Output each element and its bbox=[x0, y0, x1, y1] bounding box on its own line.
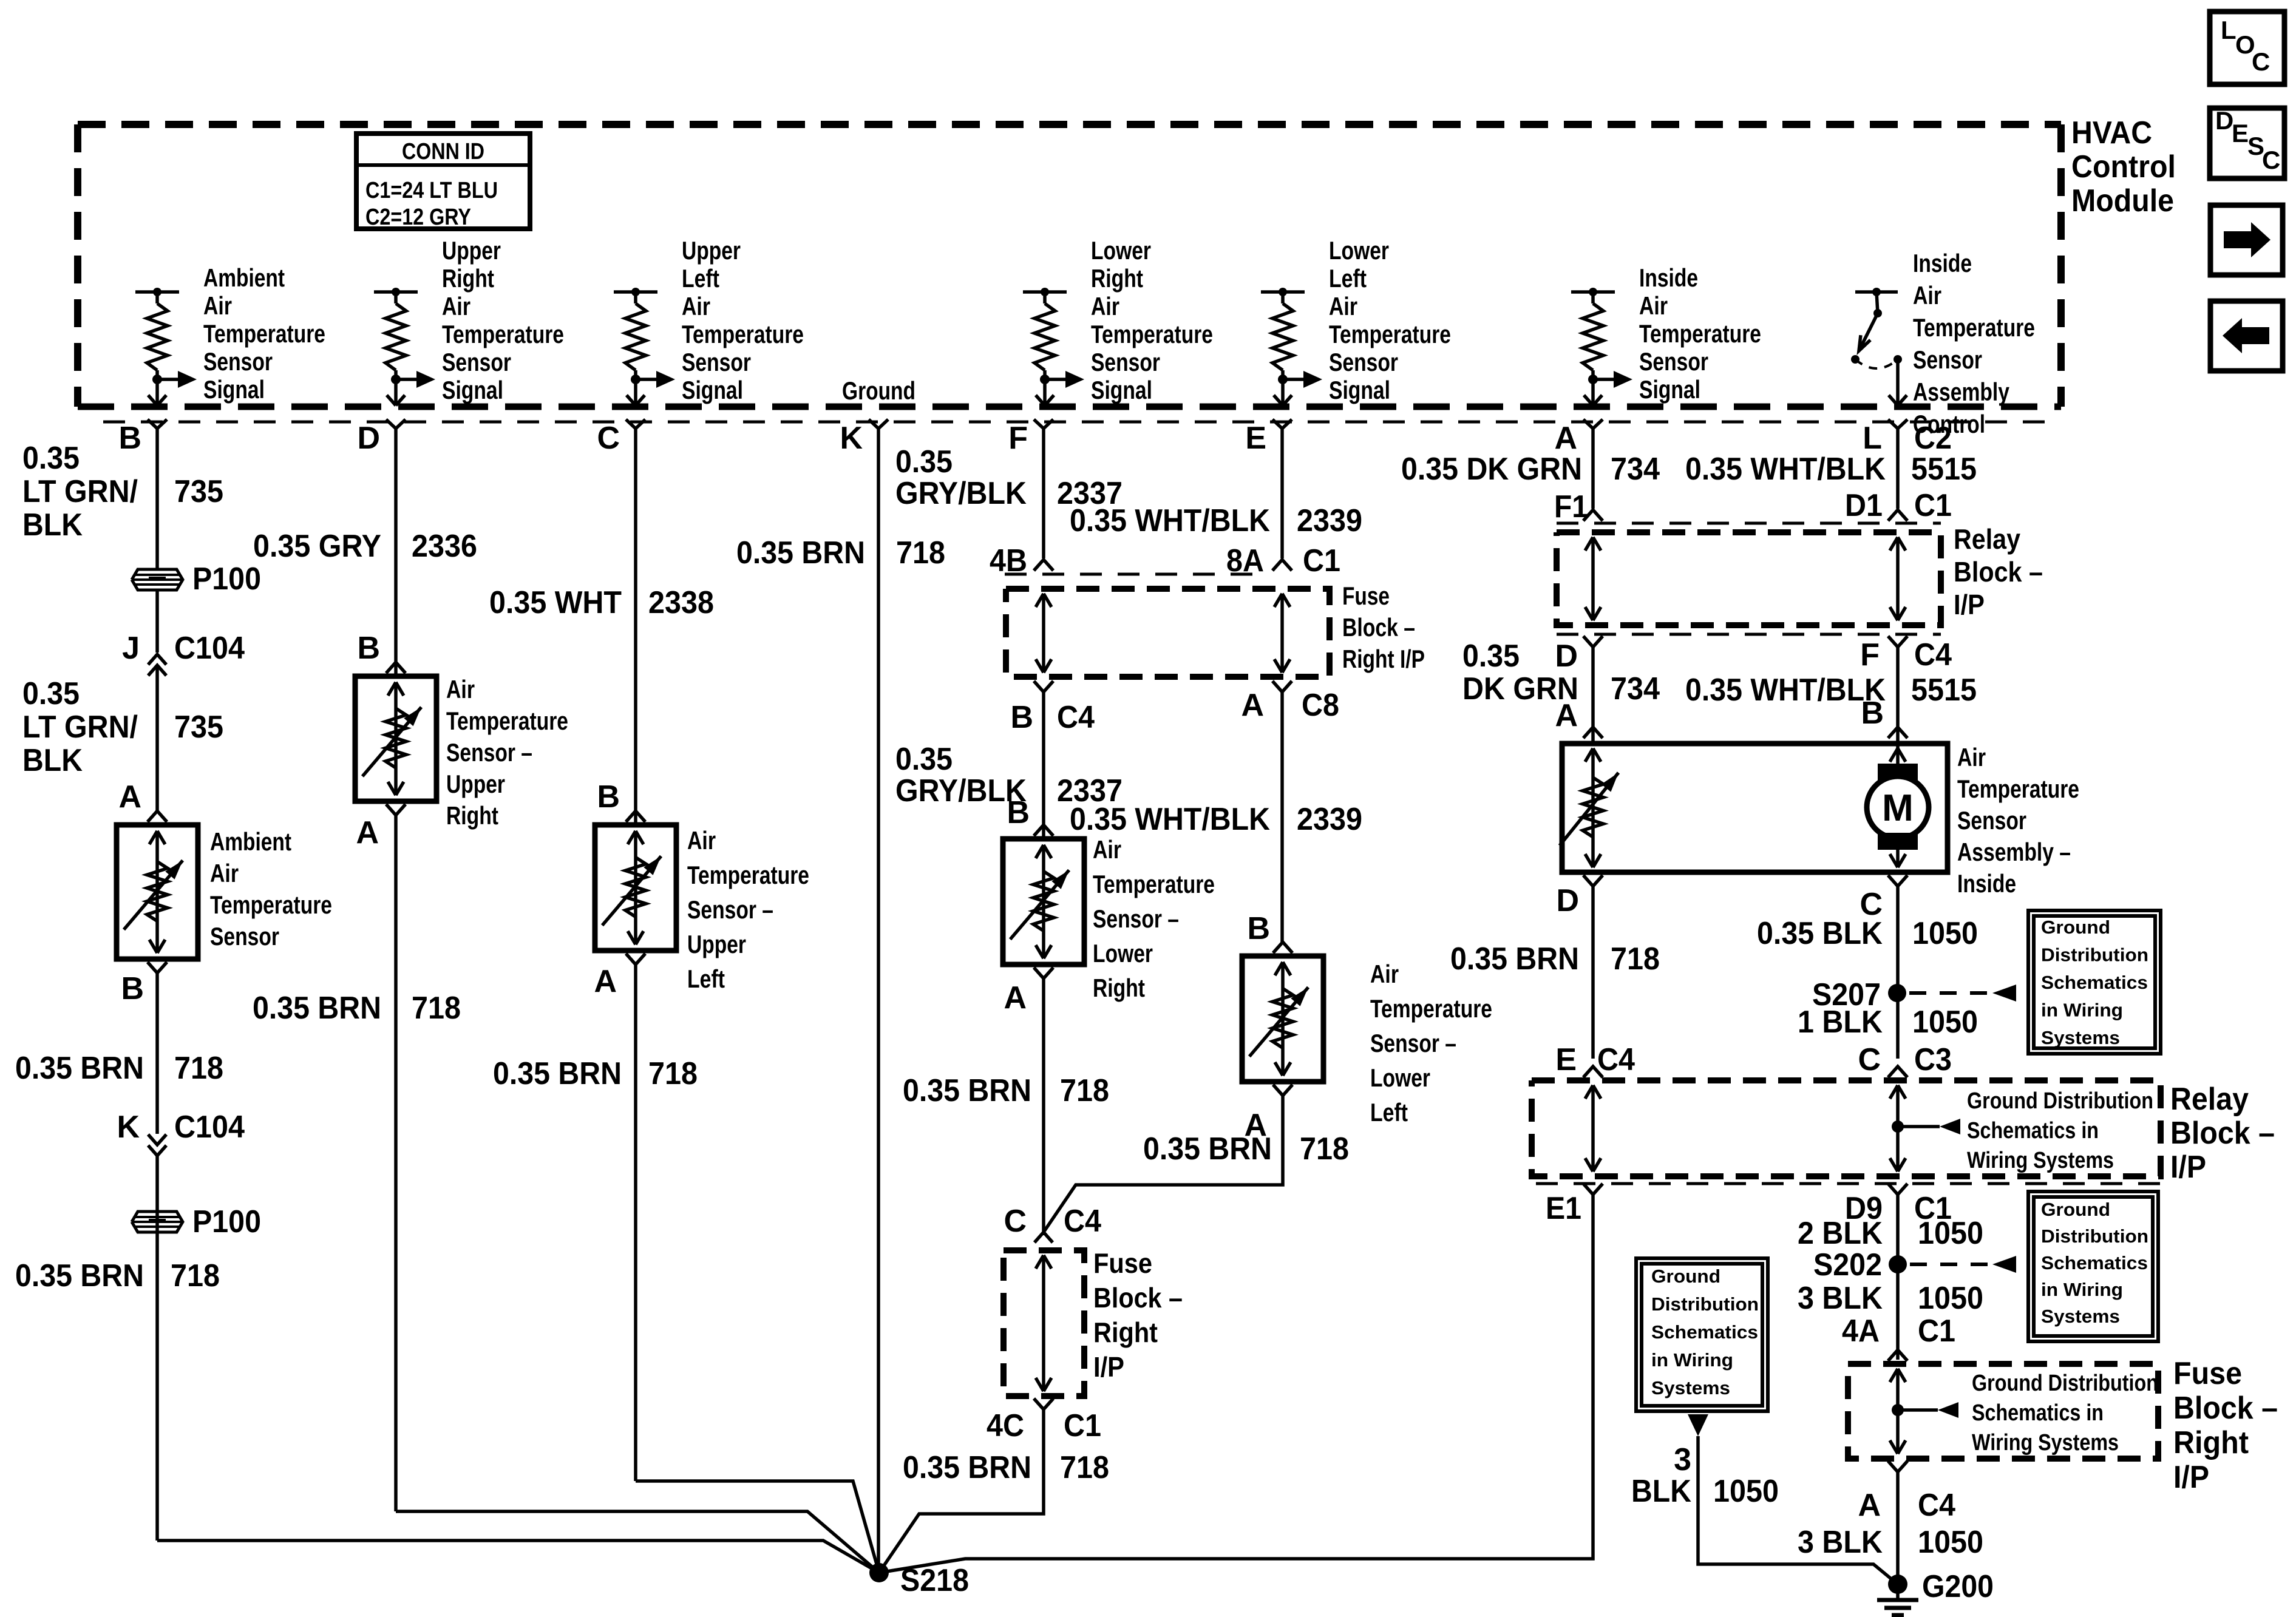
svg-text:0.35 WHT/BLK: 0.35 WHT/BLK bbox=[1070, 802, 1270, 837]
svg-text:Sensor: Sensor bbox=[203, 347, 273, 376]
pin A of lower left sensor bbox=[1244, 1085, 1292, 1143]
svg-text:B: B bbox=[1247, 911, 1270, 946]
svg-text:3 BLK: 3 BLK bbox=[1798, 1525, 1883, 1560]
svg-text:B: B bbox=[1007, 795, 1030, 830]
fuse block 1 internal wire F bbox=[1036, 594, 1051, 673]
svg-text:Temperature: Temperature bbox=[1639, 319, 1761, 348]
label: 0.35 LT GRN/BLK 735 (lower) bbox=[22, 676, 223, 778]
pin letter D bbox=[357, 421, 380, 456]
svg-text:Air: Air bbox=[1370, 960, 1399, 988]
svg-text:B: B bbox=[357, 631, 380, 666]
inline connector J C104 bbox=[148, 654, 166, 686]
label: Air Temperature Sensor - Upper Right bbox=[446, 675, 568, 830]
svg-text:Upper: Upper bbox=[442, 236, 501, 265]
relay block 1 thin dashed line top bbox=[1557, 522, 1941, 525]
svg-text:0.35: 0.35 bbox=[895, 742, 953, 777]
label: 0.35 GRY/BLK 2337 (upper) bbox=[895, 444, 1123, 511]
svg-text:2 BLK: 2 BLK bbox=[1798, 1216, 1883, 1251]
label: 0.35 BRN 718 (F col bottom) bbox=[903, 1450, 1109, 1485]
svg-text:0.35 GRY: 0.35 GRY bbox=[253, 529, 381, 564]
svg-text:1 BLK: 1 BLK bbox=[1798, 1005, 1883, 1040]
wire K column to S218 bbox=[877, 429, 880, 1573]
svg-text:0.35 BRN: 0.35 BRN bbox=[15, 1258, 144, 1293]
svg-text:1050: 1050 bbox=[1918, 1525, 1983, 1560]
wire E1 bottom run to S218 bbox=[879, 1195, 1593, 1573]
fuse block - right I/P dashed box (middle) bbox=[1004, 1250, 1084, 1396]
fuse block 1 internal wire E bbox=[1274, 594, 1290, 673]
svg-text:Temperature: Temperature bbox=[446, 707, 568, 735]
svg-text:Temperature: Temperature bbox=[687, 861, 809, 889]
label: P100 bbox=[192, 561, 261, 597]
svg-text:Temperature: Temperature bbox=[1091, 320, 1213, 348]
wire L below relay 2 bbox=[1896, 1195, 1900, 1360]
svg-text:Relay: Relay bbox=[1954, 523, 2020, 555]
pin D9 C1 below relay block 2 bbox=[1845, 1184, 1952, 1226]
svg-text:1050: 1050 bbox=[1912, 1005, 1978, 1040]
svg-text:Ground: Ground bbox=[1651, 1266, 1720, 1287]
pin A C4 below fuse block 3 bbox=[1858, 1461, 1955, 1523]
svg-text:Signal: Signal bbox=[1329, 376, 1390, 404]
wire B column upper bbox=[155, 429, 159, 569]
relay block 2 thin dashed line bottom bbox=[1536, 1182, 2161, 1185]
svg-text:Wiring Systems: Wiring Systems bbox=[1972, 1430, 2119, 1456]
svg-text:G200: G200 bbox=[1922, 1569, 1994, 1604]
connector P100 (upper) bbox=[132, 569, 183, 590]
wire 3 BLK to G200 bbox=[1698, 1436, 1898, 1584]
svg-text:Block –: Block – bbox=[2173, 1391, 2278, 1426]
fuse block 1 connector thin dashed line bbox=[1005, 573, 1266, 576]
svg-text:Schematics in: Schematics in bbox=[1967, 1118, 2099, 1144]
svg-text:P100: P100 bbox=[192, 561, 261, 597]
svg-text:1050: 1050 bbox=[1918, 1216, 1983, 1251]
connector id C2 bbox=[1914, 421, 1952, 456]
svg-text:3 BLK: 3 BLK bbox=[1798, 1281, 1883, 1316]
pin E1 below relay block 2 bbox=[1546, 1184, 1603, 1226]
svg-text:Systems: Systems bbox=[2041, 1306, 2120, 1327]
ambient air temperature sensor box bbox=[117, 825, 198, 959]
svg-text:E1: E1 bbox=[1546, 1191, 1581, 1226]
svg-text:Ground Distribution: Ground Distribution bbox=[1972, 1371, 2158, 1396]
label: D1 C1 bbox=[1845, 488, 1952, 523]
label: 3 BLK 1050 (bottom) bbox=[1798, 1525, 1983, 1560]
pin letter F bbox=[1008, 421, 1028, 456]
module internal resistor - upper-right air temperature sensor signal bbox=[374, 288, 435, 405]
label: 0.35 BRN 718 (C col) bbox=[493, 1056, 698, 1091]
svg-text:Sensor –: Sensor – bbox=[687, 895, 773, 924]
svg-text:2338: 2338 bbox=[648, 585, 714, 620]
svg-text:735: 735 bbox=[174, 710, 223, 745]
label: 4A C1 bbox=[1842, 1314, 1955, 1349]
connector P100 (lower) bbox=[132, 1212, 183, 1232]
pin D below relay block 1 bbox=[1462, 636, 1603, 674]
svg-text:A: A bbox=[1241, 688, 1264, 723]
svg-text:C104: C104 bbox=[174, 1110, 245, 1145]
module pin F connector chevron bbox=[1034, 419, 1053, 429]
svg-text:Systems: Systems bbox=[2041, 1027, 2120, 1048]
svg-text:Left: Left bbox=[682, 264, 719, 293]
svg-text:D: D bbox=[357, 421, 380, 456]
relay block 2 internal wire with junction bbox=[1890, 1085, 1960, 1171]
label: Lower Right Air Temperature Sensor Signal bbox=[1091, 236, 1213, 404]
svg-text:Air: Air bbox=[1639, 291, 1668, 320]
pin 8A chevron bbox=[1272, 560, 1292, 571]
svg-text:B: B bbox=[1861, 696, 1884, 731]
pin letter K bbox=[840, 421, 863, 456]
svg-text:0.35: 0.35 bbox=[22, 676, 80, 711]
pin A of upper left sensor bbox=[594, 954, 645, 999]
label: Inside Air Temperature Sensor Assembly Control bbox=[1913, 249, 2035, 438]
relay block - I/P dashed box (lower) bbox=[1532, 1080, 2161, 1176]
pin E C4 above relay block 2 bbox=[1555, 1042, 1635, 1077]
module pin B connector chevron bbox=[148, 419, 167, 429]
label: 1 BLK 1050 bbox=[1798, 1005, 1978, 1040]
svg-text:Temperature: Temperature bbox=[210, 890, 332, 919]
svg-text:D1: D1 bbox=[1845, 488, 1883, 523]
fuse block - right I/P dashed box (upper) bbox=[1006, 589, 1330, 677]
svg-text:734: 734 bbox=[1611, 452, 1660, 487]
svg-text:Block –: Block – bbox=[1954, 556, 2043, 588]
svg-text:Schematics: Schematics bbox=[2041, 972, 2148, 993]
module connector thin dashed line (connector row) bbox=[103, 421, 2059, 424]
fuse block 3 internal wire with junction bbox=[1890, 1369, 1958, 1454]
svg-text:Left: Left bbox=[1329, 264, 1367, 293]
pin D1 chevron bbox=[1888, 510, 1907, 521]
pin C C3 above relay block 2 bbox=[1858, 1042, 1952, 1077]
svg-text:BLK: BLK bbox=[1631, 1474, 1691, 1509]
svg-text:Ground: Ground bbox=[2041, 1199, 2110, 1220]
svg-text:C2=12 GRY: C2=12 GRY bbox=[365, 205, 471, 230]
svg-text:2339: 2339 bbox=[1297, 503, 1362, 538]
svg-text:0.35: 0.35 bbox=[895, 444, 953, 480]
svg-text:Schematics: Schematics bbox=[2041, 1252, 2148, 1273]
svg-text:A: A bbox=[1858, 1488, 1881, 1523]
splice S202 bbox=[1813, 1247, 1907, 1283]
label: Lower Left Air Temperature Sensor Signal bbox=[1329, 236, 1451, 404]
relay block - I/P dashed box (upper) bbox=[1557, 532, 1941, 625]
svg-text:F: F bbox=[1008, 421, 1028, 456]
svg-text:I/P: I/P bbox=[1093, 1351, 1124, 1383]
svg-text:Inside: Inside bbox=[1639, 263, 1698, 292]
label: 0.35 BRN 718 (A col) bbox=[1450, 941, 1660, 977]
pin B of lower right sensor bbox=[1007, 795, 1053, 836]
wire to P100 lower bbox=[155, 1156, 159, 1541]
module internal resistor - ambient air temperature sensor signal bbox=[135, 288, 197, 405]
module internal resistor - upper-left air temperature sensor signal bbox=[614, 288, 675, 405]
label: 0.35 LT GRN/BLK 735 (upper) bbox=[22, 441, 223, 543]
svg-text:Ambient: Ambient bbox=[203, 263, 285, 292]
svg-text:BLK: BLK bbox=[22, 743, 83, 778]
label: 0.35 WHT/BLK 2339 (lower) bbox=[1070, 802, 1362, 837]
module pin C connector chevron bbox=[626, 419, 645, 429]
svg-text:Ground Distribution: Ground Distribution bbox=[1967, 1088, 2153, 1114]
fuse block 2 internal wire bbox=[1036, 1255, 1051, 1391]
label: 0.35 GRY/BLK 2337 (lower) bbox=[895, 742, 1123, 808]
svg-text:0.35 BLK: 0.35 BLK bbox=[1757, 916, 1883, 951]
svg-text:M: M bbox=[1882, 787, 1914, 829]
air temperature sensor - upper right box bbox=[355, 676, 436, 801]
svg-text:Right: Right bbox=[2173, 1425, 2249, 1460]
wire C col below assembly bbox=[1896, 886, 1900, 1059]
svg-text:Assembly: Assembly bbox=[1913, 378, 2010, 406]
ground distribution schematics box (right lower) bbox=[2028, 1192, 2158, 1341]
svg-text:C1=24 LT BLU: C1=24 LT BLU bbox=[365, 178, 498, 203]
svg-text:Ground: Ground bbox=[842, 376, 915, 405]
wire E to F join bbox=[1044, 1096, 1283, 1232]
pin B of upper right sensor bbox=[357, 631, 406, 673]
svg-text:CONN ID: CONN ID bbox=[402, 139, 484, 164]
svg-text:Temperature: Temperature bbox=[682, 320, 804, 348]
label: 4B bbox=[990, 543, 1027, 578]
svg-text:Right: Right bbox=[446, 801, 498, 830]
svg-text:718: 718 bbox=[1611, 941, 1660, 977]
label: Relay Block - I/P (upper) bbox=[1954, 523, 2043, 620]
svg-text:Air: Air bbox=[210, 859, 239, 887]
svg-text:Block –: Block – bbox=[1342, 613, 1415, 642]
wire L to assembly box bbox=[1896, 647, 1900, 744]
label: 0.35 WHT/BLK 2339 (upper) bbox=[1070, 503, 1362, 538]
svg-text:S202: S202 bbox=[1813, 1247, 1882, 1283]
svg-text:C4: C4 bbox=[1914, 637, 1952, 673]
svg-text:718: 718 bbox=[1060, 1450, 1109, 1485]
svg-text:K: K bbox=[840, 421, 863, 456]
label: 0.35 BRN 718 (B col lower) bbox=[15, 1258, 220, 1293]
svg-text:Sensor: Sensor bbox=[1957, 806, 2026, 835]
svg-text:Air: Air bbox=[1329, 292, 1357, 320]
wire below upper left sensor bbox=[634, 964, 637, 1481]
svg-text:0.35 BRN: 0.35 BRN bbox=[493, 1056, 622, 1091]
wire below ambient sensor bbox=[155, 973, 159, 1134]
svg-text:Sensor: Sensor bbox=[682, 348, 751, 376]
svg-text:Signal: Signal bbox=[203, 375, 265, 404]
wire A column upper bbox=[1591, 429, 1595, 509]
svg-text:in Wiring: in Wiring bbox=[2041, 1279, 2123, 1300]
svg-text:Air: Air bbox=[1091, 292, 1119, 320]
svg-text:Fuse: Fuse bbox=[1093, 1247, 1152, 1279]
svg-text:Relay: Relay bbox=[2170, 1082, 2249, 1117]
label: Air Temperature Sensor - Upper Left bbox=[687, 826, 809, 993]
svg-text:Distribution: Distribution bbox=[1651, 1293, 1759, 1315]
svg-text:C: C bbox=[597, 421, 620, 456]
ground distribution schematics box (right upper) bbox=[2028, 910, 2161, 1054]
pin letter B bbox=[118, 421, 141, 456]
svg-text:0.35 WHT/BLK: 0.35 WHT/BLK bbox=[1070, 503, 1270, 538]
motor M inside assembly box bbox=[1867, 744, 1929, 867]
pin 4B chevron bbox=[1034, 560, 1053, 571]
svg-text:Temperature: Temperature bbox=[1093, 870, 1215, 898]
label: 0.35 GRY 2336 bbox=[253, 529, 477, 564]
label: 0.35 BRN 718 (K col) bbox=[736, 535, 945, 571]
svg-text:Temperature: Temperature bbox=[1957, 775, 2079, 803]
wire D col below assembly bbox=[1591, 886, 1595, 1059]
svg-text:Distribution: Distribution bbox=[2041, 944, 2148, 966]
label: Relay Block - I/P (lower) bbox=[2170, 1082, 2275, 1185]
svg-text:1050: 1050 bbox=[1713, 1474, 1779, 1509]
module pin D connector chevron bbox=[386, 419, 406, 429]
svg-text:718: 718 bbox=[412, 991, 461, 1026]
svg-text:Air: Air bbox=[682, 292, 710, 320]
svg-text:J: J bbox=[122, 631, 140, 666]
label: P100 (lower) bbox=[192, 1204, 261, 1239]
svg-text:L: L bbox=[1863, 421, 1882, 456]
pin B of lower left sensor bbox=[1247, 911, 1292, 953]
svg-text:C4: C4 bbox=[1597, 1042, 1635, 1077]
label: Ambient Air Temperature Sensor bbox=[210, 827, 332, 951]
pin B of ambient sensor bbox=[121, 962, 167, 1006]
svg-text:P100: P100 bbox=[192, 1204, 261, 1239]
svg-text:BLK: BLK bbox=[22, 507, 83, 543]
svg-text:Air: Air bbox=[203, 291, 232, 320]
label: 2 BLK 1050 bbox=[1798, 1216, 1983, 1251]
svg-text:Temperature: Temperature bbox=[442, 320, 564, 348]
wire L to G200 bbox=[1896, 1472, 1900, 1584]
wire F mid bbox=[1042, 692, 1045, 839]
svg-text:B: B bbox=[118, 421, 141, 456]
module pin L connector chevron bbox=[1888, 419, 1907, 429]
svg-text:Air: Air bbox=[687, 826, 716, 855]
label: Ambient Air Temperature Sensor Signal bbox=[203, 263, 325, 404]
svg-text:Air: Air bbox=[1957, 743, 1986, 771]
S202 dashed reference line bbox=[1910, 1256, 2016, 1273]
svg-text:Schematics in: Schematics in bbox=[1972, 1400, 2104, 1426]
svg-text:Distribution: Distribution bbox=[2041, 1225, 2148, 1247]
svg-text:C: C bbox=[2252, 47, 2270, 76]
module internal resistor - lower-left air temperature sensor signal bbox=[1261, 288, 1322, 405]
splice S207 bbox=[1812, 977, 1906, 1012]
svg-text:Signal: Signal bbox=[442, 376, 503, 404]
label: Inside Air Temperature Sensor Signal bbox=[1639, 263, 1761, 404]
svg-text:Sensor –: Sensor – bbox=[1093, 904, 1179, 933]
wire below upper right sensor bbox=[394, 815, 398, 1511]
label: 0.35 WHT/BLK 5515 (lower) bbox=[1685, 673, 1977, 708]
wire F column upper bbox=[1042, 429, 1045, 558]
svg-text:I/P: I/P bbox=[1954, 589, 1985, 620]
module internal resistor - inside air temperature sensor signal bbox=[1571, 288, 1632, 405]
svg-text:I/P: I/P bbox=[2170, 1150, 2206, 1185]
svg-text:Signal: Signal bbox=[1639, 375, 1700, 404]
svg-text:C4: C4 bbox=[1064, 1204, 1101, 1239]
wire C bottom run to S218 bbox=[636, 1481, 879, 1573]
pin F C4 below relay block 1 bbox=[1860, 636, 1952, 673]
svg-text:0.35 BRN: 0.35 BRN bbox=[15, 1051, 144, 1086]
svg-text:A: A bbox=[356, 815, 379, 850]
svg-text:A: A bbox=[1004, 980, 1027, 1015]
svg-text:Temperature: Temperature bbox=[203, 319, 325, 348]
svg-text:L: L bbox=[2221, 16, 2237, 44]
svg-text:Module: Module bbox=[2071, 183, 2174, 219]
svg-text:Sensor: Sensor bbox=[1091, 348, 1160, 376]
svg-text:Fuse: Fuse bbox=[2173, 1356, 2242, 1391]
svg-text:Lower: Lower bbox=[1329, 236, 1389, 265]
svg-text:C4: C4 bbox=[1057, 700, 1095, 735]
svg-text:C3: C3 bbox=[1914, 1042, 1952, 1077]
label: Air Temperature Sensor Assembly - Inside bbox=[1957, 743, 2079, 898]
svg-text:E: E bbox=[1555, 1042, 1577, 1077]
svg-text:C: C bbox=[2262, 146, 2280, 174]
svg-text:Right: Right bbox=[442, 264, 494, 293]
label: Fuse Block - Right I/P (upper) bbox=[1342, 581, 1425, 673]
pin A of ambient sensor bbox=[118, 779, 167, 822]
svg-text:Right: Right bbox=[1093, 1317, 1158, 1348]
svg-text:Sensor –: Sensor – bbox=[446, 738, 532, 767]
svg-text:0.35 WHT/BLK: 0.35 WHT/BLK bbox=[1685, 452, 1886, 487]
label: Ground Distribution Schematics in Wiring Systems (fuse block) bbox=[1972, 1371, 2158, 1456]
svg-text:Air: Air bbox=[442, 292, 470, 320]
label: 0.35 BLK 1050 bbox=[1757, 916, 1978, 951]
label: 0.35 BRN 718 (B col) bbox=[15, 1051, 223, 1086]
wire F lower bbox=[1042, 978, 1045, 1235]
svg-text:D: D bbox=[1556, 883, 1579, 918]
svg-text:4A: 4A bbox=[1842, 1314, 1880, 1349]
svg-text:Temperature: Temperature bbox=[1913, 313, 2035, 342]
pin A of assembly bbox=[1555, 698, 1603, 738]
label: Upper Right Air Temperature Sensor Signal bbox=[442, 236, 564, 404]
svg-text:Block –: Block – bbox=[2170, 1116, 2275, 1151]
svg-text:Upper: Upper bbox=[687, 930, 746, 958]
svg-text:Lower: Lower bbox=[1370, 1063, 1430, 1092]
label: 3 BLK 1050 (left) bbox=[1631, 1442, 1779, 1509]
pin letter C bbox=[597, 421, 620, 456]
label: Fuse Block - Right I/P (bottom right) bbox=[2173, 1356, 2278, 1495]
svg-text:0.35 BRN: 0.35 BRN bbox=[903, 1450, 1031, 1485]
svg-text:in Wiring: in Wiring bbox=[2041, 1000, 2123, 1021]
svg-text:Sensor: Sensor bbox=[1913, 345, 1982, 374]
DESC legend box bbox=[2210, 106, 2284, 178]
svg-text:Sensor: Sensor bbox=[210, 922, 279, 951]
label: 3 BLK 1050 (above fuse block) bbox=[1798, 1281, 1983, 1316]
pin letter A bbox=[1554, 421, 1577, 456]
svg-text:0.35 BRN: 0.35 BRN bbox=[1143, 1131, 1272, 1167]
svg-text:718: 718 bbox=[174, 1051, 223, 1086]
inline connector C C4 bbox=[1004, 1204, 1101, 1242]
module internal resistor - lower-right air temperature sensor signal bbox=[1023, 288, 1084, 405]
svg-text:K: K bbox=[117, 1110, 140, 1145]
label: 0.35 BRN 718 (F col) bbox=[903, 1073, 1109, 1108]
svg-text:0.35 BRN: 0.35 BRN bbox=[253, 991, 381, 1026]
svg-text:C2: C2 bbox=[1914, 421, 1952, 456]
svg-text:Air: Air bbox=[1093, 835, 1121, 864]
splice S218 bbox=[869, 1563, 969, 1598]
svg-text:A: A bbox=[1555, 698, 1578, 733]
svg-text:Sensor: Sensor bbox=[1639, 347, 1708, 376]
svg-text:B: B bbox=[597, 779, 620, 815]
wire A to assembly box bbox=[1591, 647, 1595, 744]
svg-text:0.35 WHT: 0.35 WHT bbox=[489, 585, 622, 620]
svg-text:1050: 1050 bbox=[1918, 1281, 1983, 1316]
svg-text:Sensor –: Sensor – bbox=[1370, 1029, 1456, 1057]
svg-text:Temperature: Temperature bbox=[1370, 994, 1492, 1023]
svg-text:C8: C8 bbox=[1302, 688, 1339, 723]
pin letter L bbox=[1863, 421, 1882, 456]
pin A C8 below fuse block bbox=[1241, 681, 1339, 723]
wire E mid bbox=[1280, 692, 1284, 942]
svg-text:C1: C1 bbox=[1918, 1314, 1955, 1349]
svg-text:2339: 2339 bbox=[1297, 802, 1362, 837]
pin letter E bbox=[1245, 421, 1266, 456]
wire to ambient sensor bbox=[155, 686, 159, 811]
svg-text:F: F bbox=[1860, 637, 1880, 673]
svg-text:734: 734 bbox=[1611, 671, 1660, 707]
reference arrow down from box bbox=[1688, 1414, 1708, 1436]
wire E column upper bbox=[1280, 429, 1284, 558]
HVAC Control Module dashed outline bbox=[78, 124, 2061, 407]
wire F bottom bbox=[879, 1409, 1044, 1573]
svg-text:Right: Right bbox=[1091, 264, 1143, 293]
label: 0.35 WHT/BLK 5515 (upper) bbox=[1685, 452, 1977, 487]
inline connector K C104 bbox=[117, 1110, 245, 1156]
svg-text:C: C bbox=[1004, 1204, 1027, 1239]
svg-text:B: B bbox=[1010, 700, 1033, 735]
svg-text:Block –: Block – bbox=[1093, 1282, 1183, 1314]
